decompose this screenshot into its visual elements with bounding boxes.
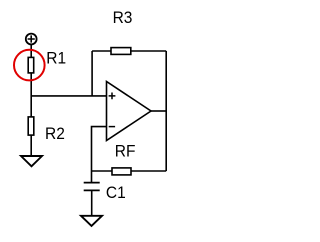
svg-text:C1: C1 [106,185,126,203]
svg-text:R2: R2 [45,126,65,144]
svg-text:RF: RF [115,143,136,161]
svg-text:R1: R1 [46,50,66,68]
svg-text:R3: R3 [113,10,133,28]
